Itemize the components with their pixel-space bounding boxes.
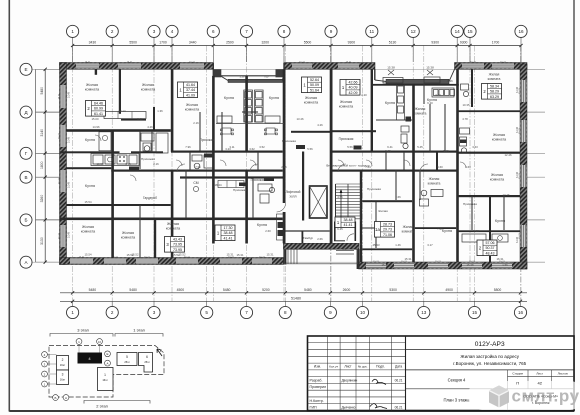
interior wall vertical col4 lower: [171, 171, 174, 258]
svg-text:7.04: 7.04: [365, 165, 371, 169]
interior wall vertical x112 col2: [111, 131, 114, 258]
grid lines vertical: [73, 46, 521, 302]
svg-text:3.148: 3.148: [68, 231, 71, 238]
svg-text:1700: 1700: [492, 41, 500, 45]
svg-text:1а: 1а: [375, 227, 380, 232]
svg-text:48.43: 48.43: [486, 251, 495, 255]
svg-text:40.09: 40.09: [349, 86, 358, 90]
svg-text:Прихожая: Прихожая: [339, 137, 354, 141]
svg-text:15.31: 15.31: [405, 257, 412, 261]
svg-text:15: 15: [467, 29, 473, 34]
svg-text:В: В: [24, 175, 27, 180]
svg-text:16эт: 16эт: [60, 363, 66, 367]
svg-text:3.62: 3.62: [249, 147, 255, 151]
bottom grid bubbles: [67, 301, 527, 318]
svg-text:3: 3: [153, 310, 156, 315]
windows left wall: [60, 85, 66, 108]
area table apt3b: [215, 225, 235, 241]
svg-text:1.56: 1.56: [502, 263, 508, 267]
svg-text:3: 3: [153, 29, 156, 34]
bathroom block x250-270 lower: [258, 184, 275, 203]
svg-text:41.64: 41.64: [186, 83, 195, 87]
svg-text:комната: комната: [121, 235, 136, 239]
kitchen right top (cols12-14): [432, 88, 455, 97]
svg-text:Жилая застройка по адресу: Жилая застройка по адресу: [460, 353, 519, 359]
pier blocks top wall: [60, 63, 523, 70]
wall connector col8 bottom: [283, 249, 286, 264]
svg-text:1.46: 1.46: [395, 243, 401, 247]
svg-text:Жилая: Жилая: [489, 73, 500, 77]
frame bottom border: [9, 410, 574, 412]
svg-text:15-21: 15-21: [58, 232, 60, 238]
svg-text:15-21: 15-21: [85, 62, 91, 64]
svg-text:60.99: 60.99: [94, 107, 103, 111]
key plan axis circles left: [42, 352, 48, 358]
stair flight treads: [336, 184, 361, 219]
lift shaft: [310, 186, 328, 218]
svg-text:3140: 3140: [40, 129, 44, 137]
svg-text:Жилая: Жилая: [493, 133, 505, 137]
tambour walls: [302, 231, 304, 243]
svg-text:41.41: 41.41: [344, 223, 353, 227]
svg-text:43.43: 43.43: [173, 237, 182, 241]
svg-text:2: 2: [111, 29, 114, 34]
svg-text:2.20: 2.20: [361, 93, 367, 97]
svg-text:5: 5: [205, 310, 208, 315]
svg-text:комната: комната: [428, 181, 441, 185]
svg-text:3430: 3430: [89, 41, 97, 45]
svg-text:012У-АР3: 012У-АР3: [475, 341, 505, 348]
svg-text:61.41: 61.41: [94, 112, 103, 116]
svg-text:5: 5: [126, 355, 128, 359]
svg-text:комната: комната: [85, 87, 100, 91]
watermark cube icon: [489, 386, 509, 408]
door openings: [95, 135, 466, 181]
svg-text:3200: 3200: [261, 41, 269, 45]
top grid bubbles: [67, 25, 528, 37]
svg-text:комната: комната: [490, 177, 505, 181]
svg-text:6.20: 6.20: [427, 101, 433, 105]
svg-text:Прихожая: Прихожая: [463, 202, 477, 206]
svg-text:37.44: 37.44: [186, 88, 195, 92]
svg-text:2.36: 2.36: [281, 165, 287, 169]
bottom dimension line 1: [60, 288, 527, 295]
wall y152.5 right section: [458, 152, 521, 154]
svg-text:№ док.: № док.: [358, 365, 368, 369]
svg-text:Подп.: Подп.: [376, 365, 385, 369]
windows bottom wall left part: [70, 258, 93, 264]
svg-text:9: 9: [329, 310, 332, 315]
svg-text:комната: комната: [304, 100, 319, 104]
svg-text:ГИП: ГИП: [310, 406, 318, 410]
svg-text:10.35: 10.35: [463, 103, 470, 107]
svg-text:15-21: 15-21: [299, 62, 305, 64]
svg-text:Прихожая: Прихожая: [233, 188, 247, 192]
left dimension line: [40, 68, 47, 264]
balcony recess cols6-8: back wall: [213, 75, 284, 77]
svg-text:5130: 5130: [389, 41, 397, 45]
svg-text:41.41: 41.41: [224, 236, 233, 240]
signatures squiggles: [370, 379, 387, 408]
kitchen appliance stack x398: [397, 84, 405, 120]
key plan box section 5: [117, 353, 137, 366]
svg-text:1.36: 1.36: [125, 162, 131, 166]
svg-text:16эт: 16эт: [60, 378, 66, 382]
dark shaft blocks col8 bottom: [278, 222, 284, 228]
svg-text:Разраб.: Разраб.: [310, 378, 323, 382]
svg-text:СМ: СМ: [193, 181, 198, 185]
wardrobe strip left apt: [104, 112, 146, 119]
key plan box section 1: [98, 368, 114, 391]
svg-text:28.73: 28.73: [383, 222, 392, 226]
svg-text:16.31: 16.31: [497, 257, 504, 261]
svg-text:Стадия: Стадия: [512, 372, 523, 376]
title block left columns: [327, 336, 391, 411]
svg-text:15.52: 15.52: [179, 253, 186, 257]
title block divider main: [405, 336, 407, 411]
kitchen bottom right: [462, 234, 508, 242]
exterior wall bottom cols10-16: [359, 262, 527, 269]
dark dim box x354: [354, 146, 362, 150]
svg-text:9: 9: [330, 29, 333, 34]
svg-text:6.45: 6.45: [337, 227, 343, 231]
svg-text:15.00: 15.00: [92, 117, 99, 121]
balcony closets: [383, 77, 440, 83]
svg-text:15-21: 15-21: [79, 257, 85, 259]
svg-text:5480: 5480: [129, 288, 137, 292]
svg-text:Н.Контр.: Н.Контр.: [310, 399, 324, 403]
svg-text:38.48: 38.48: [224, 231, 233, 235]
svg-text:Жилая: Жилая: [403, 225, 414, 229]
svg-text:51480: 51480: [291, 297, 301, 301]
stairwell wall right col9: [330, 69, 333, 243]
area table apt2 (mid): [178, 82, 198, 98]
svg-text:Жилая: Жилая: [415, 107, 426, 111]
svg-text:15-21: 15-21: [346, 62, 352, 64]
left row bubbles: [20, 63, 32, 268]
svg-text:6.41: 6.41: [387, 145, 393, 149]
svg-text:15.31: 15.31: [237, 253, 244, 257]
svg-text:А: А: [65, 396, 67, 400]
svg-text:4.55: 4.55: [337, 195, 343, 199]
watermark background pill: [468, 381, 580, 410]
bathroom block left (x140-170): [141, 133, 168, 153]
svg-text:План 3 этажа: План 3 этажа: [443, 398, 470, 403]
svg-text:3.52: 3.52: [259, 145, 265, 149]
interior wall vertical x490: [489, 196, 491, 262]
svg-text:Лист: Лист: [344, 365, 352, 369]
svg-text:комната: комната: [141, 87, 156, 91]
corridor wall bottom y170.5 left: [111, 170, 282, 172]
svg-text:Е: Е: [106, 352, 108, 356]
svg-text:38.48: 38.48: [344, 218, 353, 222]
wall y201 cols10-12: [362, 200, 412, 202]
svg-text:Жилая: Жилая: [82, 225, 94, 229]
svg-text:15-21: 15-21: [144, 257, 150, 259]
key plan axis circles bottom: [53, 395, 59, 401]
svg-text:Прихожая: Прихожая: [251, 178, 266, 182]
svg-text:15-21: 15-21: [58, 93, 60, 99]
door leaves: [177, 164, 428, 172]
svg-text:45.33: 45.33: [373, 243, 380, 247]
svg-text:Кол.уч: Кол.уч: [329, 365, 338, 369]
svg-text:42.09: 42.09: [349, 91, 358, 95]
svg-text:холл: холл: [290, 194, 297, 198]
svg-text:8: 8: [284, 310, 287, 315]
svg-text:Проверил: Проверил: [310, 385, 327, 389]
title block outer border: [308, 336, 575, 411]
svg-text:Жилая: Жилая: [340, 100, 352, 104]
svg-text:15-21: 15-21: [373, 261, 379, 263]
svg-text:15-21: 15-21: [500, 62, 506, 64]
svg-text:4500: 4500: [177, 288, 185, 292]
row line A full width: [32, 261, 545, 263]
bottom dimension line 2 (total 51480): [60, 297, 527, 303]
balcony recess cols11-14: railing: [386, 79, 449, 84]
interior wall horizontal y120: [121, 119, 146, 121]
apartment wall col3 bottom band: [154, 220, 156, 258]
svg-text:2.66: 2.66: [317, 237, 323, 241]
svg-text:3.17: 3.17: [427, 243, 433, 247]
grid lines horizontal: [36, 69, 546, 262]
svg-text:15.54: 15.54: [85, 253, 92, 257]
svg-text:7: 7: [245, 310, 248, 315]
svg-text:Кухня: Кухня: [495, 219, 505, 223]
door gaps corridor walls: [122, 150, 460, 220]
toilet top right bathroom: [461, 84, 469, 97]
svg-text:15-21: 15-21: [401, 261, 407, 263]
svg-text:9300: 9300: [460, 41, 468, 45]
entrance porch steps: [288, 249, 354, 263]
svg-text:11: 11: [369, 29, 374, 34]
svg-text:16: 16: [518, 310, 524, 315]
svg-text:9300: 9300: [431, 41, 439, 45]
wall y131 col9-11: [332, 130, 376, 132]
doc number cell: [406, 349, 575, 351]
svg-text:5500: 5500: [304, 41, 312, 45]
svg-text:2: 2: [111, 310, 114, 315]
inter-apartment wall row B y218.5 mid: [171, 218, 283, 221]
svg-text:5480: 5480: [40, 87, 44, 95]
vent shaft dark blocks cols11-12: [406, 77, 418, 114]
svg-text:41.09: 41.09: [186, 93, 195, 97]
svg-text:15.31: 15.31: [382, 263, 389, 267]
svg-text:15-21: 15-21: [519, 232, 521, 238]
svg-text:Прихожая: Прихожая: [282, 139, 296, 143]
svg-text:Дата: Дата: [395, 365, 402, 369]
dining table glyphs: [221, 128, 278, 135]
svg-text:10.90: 10.90: [97, 162, 104, 166]
svg-text:3.148: 3.148: [68, 136, 71, 143]
row line E full width: [32, 68, 527, 70]
area table apt7 (mid right lower): [375, 222, 395, 238]
area table apt3 (mid lower): [165, 237, 185, 253]
svg-text:Жилая: Жилая: [491, 173, 503, 177]
frame left border: [8, 0, 10, 412]
windows right wall: [521, 80, 527, 102]
dark dim box mid-lower: [239, 183, 247, 187]
svg-text:5800: 5800: [494, 288, 502, 292]
svg-text:Е: Е: [24, 67, 27, 72]
svg-text:ООО АПБ «Союз-М»: ООО АПБ «Союз-М»: [523, 395, 558, 399]
svg-text:7.66: 7.66: [437, 227, 443, 231]
svg-text:г.Воронеж, ул. Независимости,: г.Воронеж, ул. Независимости, 765: [453, 361, 526, 366]
svg-text:25эт: 25эт: [124, 360, 130, 364]
project name cell: [406, 369, 575, 371]
svg-text:12: 12: [411, 29, 417, 34]
svg-text:15-21: 15-21: [127, 62, 133, 64]
svg-text:г. Воронеж: г. Воронеж: [532, 401, 550, 405]
svg-text:3.17: 3.17: [357, 242, 363, 246]
wall y228 cols12-14: [415, 227, 456, 229]
svg-text:06.21: 06.21: [395, 406, 403, 410]
exterior wall right: [520, 64, 527, 269]
svg-text:14: 14: [455, 29, 461, 34]
svg-text:комната: комната: [339, 104, 354, 108]
kitchen counter left apt upper: [99, 132, 111, 151]
svg-text:5.45: 5.45: [417, 145, 423, 149]
svg-text:Внеквартирный холл - коридор: Внеквартирный холл - коридор: [326, 164, 370, 168]
wall y131.5 col8-9: [291, 131, 330, 133]
svg-text:15-21: 15-21: [58, 132, 60, 138]
area table small lower mid: [335, 217, 355, 227]
wall y231 right section: [458, 230, 521, 232]
interior wall vertical col14: [456, 69, 459, 262]
svg-text:15.38: 15.38: [387, 66, 395, 70]
svg-text:3.148: 3.148: [68, 91, 71, 98]
svg-text:4.78: 4.78: [462, 117, 468, 121]
svg-text:3.148: 3.148: [516, 86, 519, 93]
svg-text:1: 1: [71, 29, 74, 34]
area table apt4 (col9-11): [302, 77, 322, 93]
svg-text:8.26: 8.26: [447, 79, 453, 83]
svg-text:4.26: 4.26: [147, 125, 153, 129]
svg-text:15.38: 15.38: [426, 66, 434, 70]
svg-text:5480: 5480: [304, 288, 312, 292]
svg-text:7: 7: [245, 29, 248, 34]
svg-text:Б: Б: [55, 396, 57, 400]
svg-text:3.66: 3.66: [395, 195, 401, 199]
svg-text:Изм.: Изм.: [314, 365, 321, 369]
svg-text:1: 1: [71, 310, 74, 315]
svg-text:Жилая: Жилая: [142, 83, 154, 87]
svg-text:4.26: 4.26: [317, 123, 323, 127]
windows top wall: [76, 63, 99, 69]
svg-text:6: 6: [146, 355, 148, 359]
dark dim boxes corridor: [129, 167, 139, 172]
svg-text:15.31: 15.31: [267, 253, 274, 257]
svg-text:Жилая: Жилая: [167, 222, 179, 226]
svg-text:58.34: 58.34: [490, 84, 499, 88]
corridor wall top y151.5 mid: [171, 151, 283, 153]
svg-text:15.52: 15.52: [132, 253, 139, 257]
svg-text:5.60: 5.60: [437, 165, 443, 169]
svg-text:57.06: 57.06: [486, 241, 495, 245]
svg-text:15-21: 15-21: [189, 62, 195, 64]
svg-text:5.26: 5.26: [240, 76, 245, 79]
wall y111 right of col14: [458, 110, 521, 112]
svg-text:3.60: 3.60: [435, 93, 441, 97]
key plan outline: [49, 346, 164, 398]
partition walls thin: [140, 83, 504, 258]
key plan stage brackets: [50, 334, 163, 404]
interior wall vertical col12: [412, 84, 415, 262]
svg-text:5480: 5480: [223, 288, 231, 292]
svg-text:13: 13: [421, 310, 427, 315]
svg-text:50.09: 50.09: [310, 83, 319, 87]
interior wall vertical col7 lower: [245, 171, 248, 244]
svg-text:52.64: 52.64: [310, 78, 319, 82]
title block left rows: [308, 343, 406, 404]
interior wall pier stub x96: [95, 69, 97, 75]
svg-text:15-21: 15-21: [519, 87, 521, 93]
door gap in stairwell wall col8: [282, 203, 285, 212]
svg-text:3.63: 3.63: [472, 145, 478, 149]
wall connector col10 bottom: [357, 249, 360, 269]
svg-text:29.73: 29.73: [383, 228, 392, 232]
area table apt8 (right lower): [477, 240, 497, 256]
svg-text:15-21: 15-21: [519, 127, 521, 133]
svg-text:комната: комната: [166, 226, 181, 230]
svg-text:3.11: 3.11: [229, 145, 235, 149]
key plan section 4 (current, filled): [78, 353, 103, 364]
exterior wall top segment cols8-11: [284, 63, 375, 70]
balcony recess cols6-8: railing: [228, 79, 283, 82]
wall y83.9 cols12-14: [372, 84, 459, 86]
interior dimension numbers: [85, 79, 512, 267]
svg-text:7.96: 7.96: [185, 145, 191, 149]
svg-text:15: 15: [472, 310, 478, 315]
svg-text:3.17: 3.17: [342, 247, 348, 251]
svg-text:15-21: 15-21: [184, 257, 190, 259]
svg-text:2.16: 2.16: [153, 162, 159, 166]
svg-text:3130: 3130: [40, 237, 44, 245]
svg-text:5.56: 5.56: [347, 145, 353, 149]
interior wall vertical x472 upper: [471, 69, 473, 107]
key plan axis circles inner: [105, 351, 111, 357]
svg-text:5200: 5200: [262, 288, 270, 292]
svg-text:2500: 2500: [226, 41, 234, 45]
svg-text:Тамбур: Тамбур: [303, 236, 314, 240]
svg-text:15.31: 15.31: [227, 253, 234, 257]
wall y249 cols10-12: [362, 248, 412, 250]
svg-text:А: А: [106, 361, 108, 365]
svg-text:4: 4: [171, 29, 174, 34]
svg-text:Прихожая: Прихожая: [200, 138, 215, 142]
svg-text:Листов: Листов: [558, 372, 568, 376]
svg-text:15-21: 15-21: [470, 62, 476, 64]
svg-text:6.41: 6.41: [137, 117, 143, 121]
interior wall vertical col6 lower: [212, 171, 215, 244]
bathroom cluster upper (x400-418): [401, 126, 409, 149]
pier blocks bottom wall: [60, 258, 527, 270]
svg-text:5.45: 5.45: [443, 149, 449, 153]
svg-text:Кухня: Кухня: [224, 96, 234, 100]
title block header texts: [314, 365, 403, 369]
svg-text:Кухня: Кухня: [269, 96, 279, 100]
key plan box section 2: [57, 356, 69, 371]
svg-text:1700: 1700: [159, 41, 167, 45]
svg-text:Жилая: Жилая: [122, 231, 134, 235]
wall y196 right section: [458, 195, 521, 197]
svg-text:5.56: 5.56: [307, 147, 313, 151]
lift shaft wall x303: [302, 152, 304, 221]
stairwell wall left col8: [283, 69, 286, 243]
svg-text:16: 16: [518, 29, 524, 34]
interior wall horizontal y131 left apt: [67, 129, 171, 132]
balcony side piers cols6-8: [213, 69, 221, 77]
svg-text:комната: комната: [414, 111, 427, 115]
